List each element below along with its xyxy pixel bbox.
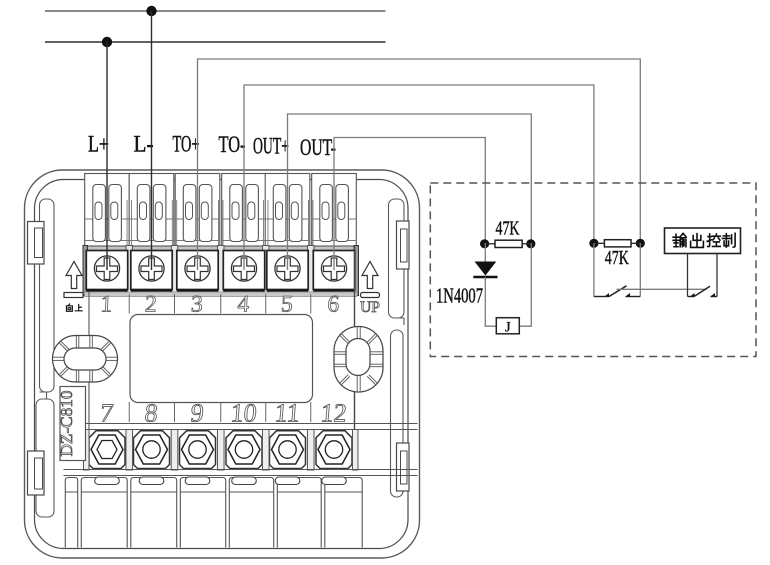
wire entry slot under nut 7	[95, 477, 120, 485]
wire: top supply bus line 2	[45, 41, 386, 43]
divider tick between digits	[174, 294, 176, 314]
divider tick between digits	[174, 402, 176, 422]
resistor R2 47K	[594, 240, 640, 247]
nut row partition strip	[171, 430, 178, 471]
left lower mounting tab	[28, 451, 45, 495]
bottom compartment 4	[180, 478, 225, 548]
clamp row partition wall	[171, 200, 177, 295]
wire entry slot under nut 10	[232, 477, 257, 485]
bottom compartment 3	[131, 478, 177, 548]
model label DZ-C810	[57, 387, 85, 461]
hex nut terminal 12	[316, 431, 352, 469]
svg-text:1: 1	[100, 292, 113, 318]
divider tick between digits	[128, 294, 130, 314]
terminal clamp row gray base band	[85, 246, 358, 252]
left upper mounting tab	[28, 222, 45, 265]
terminal 2 spring clamp cell	[129, 174, 174, 247]
svg-text:47K: 47K	[496, 217, 520, 239]
dashed detail enclosure box	[430, 183, 756, 357]
clamp row left end plate	[83, 246, 88, 296]
svg-text:3: 3	[190, 292, 203, 318]
right interior panel strip	[389, 199, 405, 318]
right upper mounting tab	[397, 221, 410, 269]
junction dot on bus line 2 (L+ tap)	[102, 37, 112, 47]
switch contact K2	[688, 286, 718, 296]
hex nut terminal 7	[89, 431, 125, 469]
hex nut terminal 10	[226, 431, 262, 469]
clamp row partition wall	[218, 200, 224, 295]
clamp row right end plate	[354, 246, 359, 296]
wire output control right leg	[716, 254, 718, 297]
central rectangular window	[130, 315, 313, 403]
text 向上 (Chinese "up")	[66, 304, 82, 311]
bottom compartment 6	[277, 478, 321, 548]
node dot left of resistor R2	[589, 239, 598, 248]
svg-text:2: 2	[144, 292, 157, 318]
wire TO- node down to switch K1 left pole	[593, 243, 595, 297]
left UP arrow symbol	[66, 262, 82, 289]
wire OUT+ routed to relay branch	[288, 114, 532, 270]
svg-text:L+: L+	[88, 132, 109, 157]
wire TO+ node down to switch K1 right pole	[639, 243, 641, 297]
nut row partition strip	[307, 430, 314, 471]
wire entry slot under nut 9	[185, 477, 210, 485]
node dot left of resistor R1	[480, 239, 489, 248]
text 输出控制 (output control)	[673, 233, 735, 247]
relay coil J	[496, 318, 519, 336]
diode D1 1N4007	[473, 262, 497, 278]
svg-text:L-: L-	[134, 132, 154, 157]
node dot right of resistor R2	[636, 239, 645, 248]
left arrow base bar	[64, 293, 83, 298]
svg-text:TO+: TO+	[173, 132, 200, 157]
right UP arrow symbol	[362, 262, 378, 289]
nut row partition strip	[262, 430, 269, 471]
svg-text:1N4007: 1N4007	[436, 284, 483, 308]
wire entry slot under nut 11	[275, 477, 300, 485]
bottom compartment 5	[229, 478, 273, 548]
divider tick between digits	[265, 402, 267, 422]
wire OUT- routed to diode branch	[334, 138, 485, 271]
hex nut terminal 11	[270, 431, 306, 469]
svg-text:6: 6	[327, 292, 340, 318]
svg-text:DZ-C810: DZ-C810	[57, 391, 76, 457]
terminal screw 6	[313, 251, 354, 291]
svg-text:UP: UP	[360, 299, 380, 316]
bottom compartment 1	[65, 478, 77, 548]
terminal screw 2	[131, 251, 172, 291]
resistor R1 47K	[485, 240, 531, 247]
wire TO+ routed to right 47K network	[198, 59, 641, 270]
lower band above compartments	[64, 470, 418, 476]
wire L- from bus to screw 2	[151, 11, 153, 270]
right oval rosette (mounting hole)	[334, 327, 383, 393]
nut row partition strip	[217, 430, 224, 471]
nut row upper band	[64, 424, 418, 430]
output control box 输出控制	[665, 228, 741, 254]
wire TO- routed to right 47K network	[244, 85, 594, 270]
terminal screw 1	[86, 251, 127, 291]
central panel right edge line	[354, 246, 356, 470]
nut row partition strip	[126, 430, 133, 471]
divider tick between digits	[128, 402, 130, 422]
svg-text:47K: 47K	[605, 247, 629, 269]
left oval rosette (mounting hole)	[53, 336, 118, 383]
central panel left edge line	[88, 292, 90, 470]
wire: top supply bus line 1	[45, 10, 386, 12]
terminal 1 spring clamp cell	[85, 174, 130, 247]
nut row left end strip	[84, 430, 90, 471]
wire L+ from bus to screw 1	[106, 42, 108, 270]
svg-text:OUT-: OUT-	[300, 135, 336, 160]
wire entry slot under nut 12	[322, 477, 347, 485]
hex nut terminal 8	[134, 431, 170, 469]
svg-text:TO-: TO-	[219, 132, 246, 157]
terminal 4 spring clamp cell	[222, 174, 267, 247]
clamp row partition wall	[308, 200, 314, 295]
divider tick between digits	[310, 294, 312, 314]
clamp row partition wall	[263, 200, 269, 295]
wire from OUT- node down to diode	[484, 243, 486, 262]
left interior panel strip	[40, 199, 55, 392]
terminal 6 spring clamp cell	[312, 174, 357, 247]
terminal screw 3	[177, 251, 218, 291]
right lower mounting tab	[397, 443, 410, 491]
terminal 5 spring clamp cell	[265, 174, 310, 247]
clamp row partition wall	[126, 200, 132, 295]
svg-text:4: 4	[237, 292, 250, 318]
device inner case outline	[35, 180, 409, 549]
common wire between switch blades	[617, 288, 707, 290]
svg-text:OUT+: OUT+	[253, 134, 289, 159]
terminal screw 4	[223, 251, 264, 291]
wire entry slot under nut 8	[139, 477, 164, 485]
terminal 3 spring clamp cell	[175, 174, 220, 247]
node dot right of resistor R1	[526, 239, 535, 248]
hex nut terminal 9	[180, 431, 216, 469]
bottom compartment 7	[325, 478, 362, 548]
divider tick between digits	[220, 294, 222, 314]
svg-text:J: J	[505, 319, 511, 335]
switch contact K1	[594, 286, 640, 297]
nut row right end strip	[353, 430, 359, 471]
svg-text:5: 5	[280, 292, 293, 318]
junction dot on bus line 1 (L- tap)	[146, 6, 156, 16]
divider tick between digits	[265, 294, 267, 314]
divider tick between digits	[310, 402, 312, 422]
device DZ-C810 outer case outline	[25, 170, 420, 558]
terminal screw 5	[267, 251, 308, 291]
wire output control left leg	[687, 254, 689, 297]
wire right node down to relay J right pin	[519, 243, 531, 326]
wire diode cathode to relay J left pin	[485, 277, 496, 326]
shaded strip under screw row	[85, 292, 358, 297]
bottom compartment 2	[81, 478, 127, 548]
divider tick between digits	[220, 402, 222, 422]
right arrow base bar	[361, 293, 380, 298]
